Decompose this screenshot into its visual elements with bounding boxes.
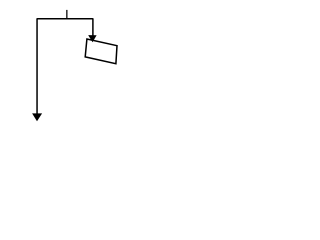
- process box: tilted rectangle: [85, 39, 117, 64]
- wire: right vertical branch: [92, 18, 94, 35]
- node tick: small vertical stub above connector: [66, 10, 68, 20]
- arrowhead: arrow into box: [88, 35, 96, 42]
- wire: top horizontal connector: [37, 18, 93, 20]
- arrowhead: bottom arrow tip: [32, 113, 42, 121]
- wire: left vertical branch: [36, 18, 38, 114]
